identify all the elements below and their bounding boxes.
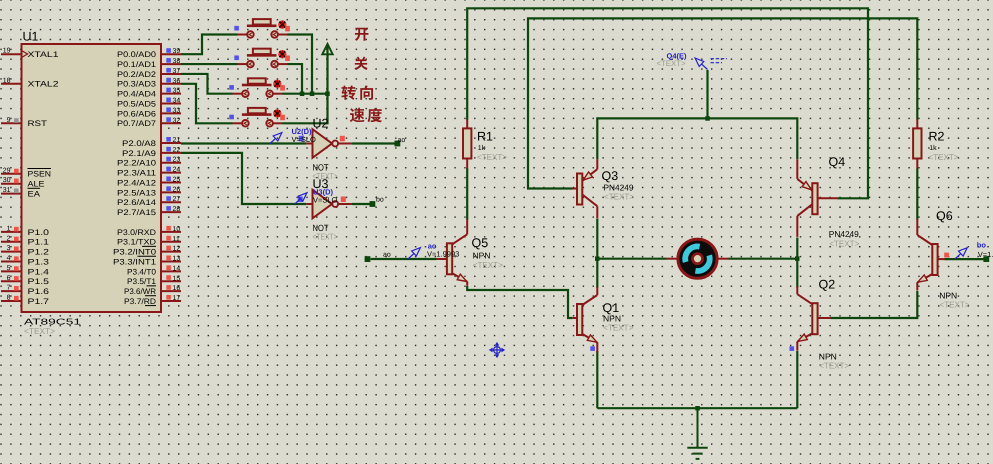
- wire Q3 base loop to R2 top: [528, 18, 917, 188]
- pin 28 P2.7/A15: [117, 206, 181, 217]
- label R1: [477, 130, 493, 144]
- svg-text:P3.2/INT0: P3.2/INT0: [113, 248, 157, 257]
- wire P2.0 to U2 input: [181, 142, 306, 144]
- pin 3 P1.2: [1, 245, 50, 256]
- label ao: [383, 252, 391, 259]
- transistor Q1: [577, 287, 597, 353]
- svg-text:R2: R2: [929, 130, 945, 144]
- indicator square Q1 emitter: [590, 346, 595, 351]
- motor lead right: [717, 258, 729, 260]
- power terminal VCC: [322, 44, 332, 54]
- junction: [325, 92, 330, 97]
- svg-text:Q4: Q4: [829, 155, 846, 169]
- svg-text:bo: bo: [376, 196, 384, 204]
- svg-text:15: 15: [173, 275, 181, 282]
- pin 36 P0.3/AD3: [117, 78, 181, 89]
- svg-text:1: 1: [7, 225, 11, 232]
- svg-text:1k: 1k: [478, 144, 486, 152]
- svg-text:Q2: Q2: [819, 278, 836, 292]
- label Q2 TEXT: [819, 361, 849, 371]
- svg-text:37: 37: [173, 68, 181, 75]
- voltage probe ao at Q5 base: [408, 248, 420, 259]
- svg-text:bo: bo: [977, 240, 987, 249]
- svg-text:35: 35: [173, 88, 181, 95]
- motor hub: [693, 254, 703, 264]
- svg-text:Q6: Q6: [936, 209, 953, 223]
- transistor Q2: [797, 286, 817, 351]
- svg-text:<TEXT>: <TEXT>: [477, 152, 507, 162]
- pin 25 P2.4/A12: [117, 176, 181, 187]
- terminal bo: [370, 201, 376, 207]
- svg-text:P3.1/TXD: P3.1/TXD: [117, 238, 156, 247]
- junction: [695, 406, 700, 411]
- motor body: [678, 239, 717, 278]
- svg-text:NPN: NPN: [473, 251, 491, 261]
- label &lt;TEXT&gt;: [313, 171, 338, 181]
- label Q1 NPN: [603, 314, 621, 324]
- terminal bo: [983, 256, 989, 262]
- svg-text:6: 6: [7, 275, 11, 282]
- svg-text:31: 31: [3, 187, 11, 194]
- svg-text:P0.2/AD2: P0.2/AD2: [117, 70, 157, 79]
- svg-text:<TEXT>: <TEXT>: [603, 323, 633, 333]
- pin 9 RST: [1, 117, 47, 128]
- pin 14 P3.4/T0: [127, 265, 181, 276]
- label Q3 Q3: [602, 169, 619, 183]
- svg-text:<TEXT>: <TEXT>: [940, 299, 970, 309]
- label R2 value 1k: [929, 144, 937, 152]
- svg-text:30: 30: [3, 177, 11, 184]
- svg-text:P0.5/AD5: P0.5/AD5: [117, 99, 157, 108]
- svg-text:PSEN: PSEN: [28, 170, 52, 179]
- svg-text:14: 14: [173, 265, 181, 272]
- svg-text:R1: R1: [477, 130, 493, 144]
- label R1 &lt;TEXT&gt;: [477, 152, 507, 162]
- wire bridge emitter rail: [597, 118, 797, 159]
- indicator square Q2 emitter: [790, 346, 795, 351]
- svg-text:P1.1: P1.1: [28, 238, 50, 247]
- svg-text:P1.0: P1.0: [28, 228, 50, 237]
- label Q3 PN4249: [604, 183, 634, 193]
- svg-text:P3.4/T0: P3.4/T0: [127, 267, 157, 276]
- svg-text:V=1.9993: V=1.9993: [427, 249, 459, 258]
- motor rotor arcs: [685, 246, 710, 271]
- svg-text:V=SLO: V=SLO: [292, 135, 317, 144]
- chinese label 度: [368, 108, 382, 122]
- svg-text:<TEXT>: <TEXT>: [604, 192, 634, 202]
- svg-text:P1.4: P1.4: [28, 267, 50, 276]
- terminal ao: [395, 141, 401, 147]
- indicator square U3 output: [341, 197, 346, 203]
- terminal ao: [365, 256, 371, 262]
- svg-text:11: 11: [173, 236, 180, 243]
- svg-text:P0.6/AD6: P0.6/AD6: [117, 109, 157, 118]
- microcontroller U1 body: [22, 44, 162, 312]
- svg-text:32: 32: [173, 117, 181, 124]
- wire R2 bottom to Q6 collector: [916, 168, 918, 219]
- transistor Q4: [797, 159, 817, 237]
- pin 23 P2.2/A10: [117, 157, 181, 168]
- wire SW1 to rail: [287, 35, 312, 94]
- origin marker: [490, 343, 505, 358]
- transistor Q5: [447, 219, 467, 285]
- voltage probe U3(D): [295, 193, 307, 204]
- label R2: [929, 130, 945, 144]
- svg-text:Q5: Q5: [472, 236, 489, 250]
- wire Q1 emitter to ground rail: [596, 351, 598, 408]
- label ao: [398, 137, 406, 144]
- svg-text:17: 17: [173, 295, 181, 302]
- svg-text:P2.1/A9: P2.1/A9: [122, 149, 157, 158]
- svg-text:U2: U2: [313, 117, 329, 131]
- svg-text:P3.5/T1: P3.5/T1: [127, 277, 157, 286]
- svg-text:<TEXT>: <TEXT>: [819, 361, 849, 371]
- label Q5 TEXT: [473, 260, 503, 270]
- pin 24 P2.3/A11: [117, 167, 181, 178]
- label V=1.9993: [427, 249, 459, 258]
- wire ao terminal to Q5 base: [371, 258, 437, 260]
- svg-text:P1.2: P1.2: [28, 248, 50, 257]
- label V=1: [978, 250, 993, 259]
- resistor R2: [913, 119, 921, 168]
- label U3: [313, 177, 329, 191]
- svg-text:P2.4/A12: P2.4/A12: [117, 178, 157, 187]
- svg-text:2: 2: [7, 235, 11, 242]
- push button SW4: [229, 108, 285, 127]
- XTAL1 clock mark: [22, 51, 28, 58]
- label Q4E &lt;TEXT&gt;: [657, 59, 686, 68]
- svg-text:RST: RST: [28, 119, 48, 128]
- junction: [795, 256, 800, 261]
- svg-text:P0.0/AD0: P0.0/AD0: [117, 50, 157, 59]
- Q1 base stub: [572, 317, 577, 319]
- label probe ao: [428, 241, 437, 250]
- wire Q6 base to bo terminal: [945, 258, 984, 260]
- pin 37 P0.2/AD2: [117, 68, 181, 79]
- label U2(D): [292, 127, 313, 136]
- svg-text:P3.3/INT1: P3.3/INT1: [113, 257, 157, 266]
- indicator square Q6 base: [944, 253, 949, 258]
- Q6 base stub: [938, 258, 945, 260]
- svg-text:<TEXT>: <TEXT>: [473, 260, 503, 270]
- pin 16 P3.6/WR: [124, 285, 181, 296]
- pin 10 P3.0/RXD: [117, 226, 181, 237]
- pin 5 P1.4: [1, 265, 50, 276]
- junction: [705, 116, 710, 121]
- pin 2 P1.1: [1, 235, 50, 246]
- indicator square U3 input: [298, 197, 303, 203]
- Q3 base stub: [572, 188, 577, 190]
- svg-text:P2.0/A8: P2.0/A8: [122, 139, 157, 148]
- svg-text:<TEXT>: <TEXT>: [313, 232, 338, 242]
- svg-text:<TEXT>: <TEXT>: [24, 326, 55, 336]
- svg-text:29: 29: [3, 167, 11, 174]
- label Q6 TEXT: [940, 299, 970, 309]
- wire ground rail to Q2 emitter: [796, 351, 798, 408]
- chinese label 关: [354, 57, 367, 70]
- svg-text:25: 25: [173, 176, 181, 183]
- ground rail: [597, 407, 797, 409]
- label R1 value 1k: [478, 144, 486, 152]
- svg-text:9: 9: [7, 117, 11, 124]
- Q4 base stub: [818, 197, 838, 199]
- svg-text:3: 3: [7, 245, 11, 252]
- svg-text:V=1.99: V=1.99: [978, 250, 993, 259]
- pin 29 PSEN: [1, 167, 51, 178]
- svg-text:XTAL1: XTAL1: [28, 50, 60, 59]
- svg-text:<TEXT>: <TEXT>: [829, 238, 859, 248]
- svg-text:<TEXT>: <TEXT>: [657, 59, 686, 68]
- svg-text:21: 21: [173, 137, 181, 144]
- resistor R1: [463, 119, 471, 168]
- pin 31 EA: [1, 187, 41, 198]
- pin 39 P0.0/AD0: [117, 48, 181, 59]
- label V=SLO U3: [313, 195, 338, 204]
- svg-text:18: 18: [3, 77, 11, 84]
- svg-text:5: 5: [7, 265, 11, 272]
- svg-text:P3.7/RD: P3.7/RD: [124, 297, 156, 306]
- label Q5 Q5: [472, 236, 489, 250]
- push button SW1: [234, 19, 290, 38]
- wire Q3 collector to motor node: [596, 219, 598, 288]
- wire U3 output to terminal bo: [352, 203, 370, 205]
- junction: [595, 256, 600, 261]
- svg-text:P3.6/WR: P3.6/WR: [124, 287, 156, 296]
- pin 22 P2.1/A9: [122, 147, 181, 158]
- svg-text:U1: U1: [23, 30, 39, 44]
- pin 21 P2.0/A8: [122, 137, 181, 148]
- svg-text:33: 33: [173, 107, 181, 114]
- pin 30 ALE: [1, 177, 45, 188]
- wire P2.1 to U3 input: [181, 153, 306, 204]
- svg-text:4: 4: [7, 255, 11, 262]
- svg-text:19: 19: [3, 48, 11, 55]
- pin 7 P1.6: [1, 285, 50, 296]
- svg-text:26: 26: [173, 186, 181, 193]
- svg-text:36: 36: [173, 78, 181, 85]
- probe Q4E value dashes: [711, 59, 728, 63]
- svg-text:P0.7/AD7: P0.7/AD7: [117, 119, 157, 128]
- svg-text:8: 8: [7, 294, 11, 301]
- voltage probe U2(D): [270, 133, 282, 144]
- label AT89C51: [24, 317, 81, 327]
- pin 33 P0.6/AD6: [117, 107, 181, 118]
- label U2: [313, 117, 329, 131]
- wire SW3 to rail: [282, 93, 327, 95]
- label U1: [23, 30, 39, 44]
- junction: [300, 92, 305, 97]
- svg-text:ao: ao: [383, 252, 391, 259]
- svg-text:P2.6/A14: P2.6/A14: [117, 198, 157, 207]
- label Q4 TEXT: [829, 238, 859, 248]
- voltage probe bo at Q6 base: [955, 248, 967, 259]
- label NOT: [313, 163, 329, 173]
- NOT gate U3: [306, 190, 352, 219]
- label Q4 Q4: [829, 155, 846, 169]
- wire probe tap Q4(E): [706, 70, 708, 118]
- pin 8 P1.7: [1, 294, 50, 305]
- label Q5 NPN: [473, 251, 491, 261]
- label R2 &lt;TEXT&gt;: [929, 152, 959, 162]
- svg-text:P1.6: P1.6: [28, 287, 50, 296]
- pin 26 P2.5/A13: [117, 186, 181, 197]
- pin 32 P0.7/AD7: [117, 117, 181, 128]
- transistor Q3: [577, 159, 597, 218]
- pin 11 P3.1/TXD: [117, 236, 181, 247]
- chinese label 转: [341, 85, 355, 99]
- svg-text:P0.3/AD3: P0.3/AD3: [117, 80, 157, 89]
- wire R1 top loop to Q4 base: [467, 8, 868, 198]
- pin 1 P1.0: [1, 225, 50, 236]
- label Q6 NPN: [939, 290, 957, 300]
- Q2 base stub: [818, 317, 831, 319]
- label probe bo: [977, 240, 987, 249]
- svg-text:1k: 1k: [929, 144, 937, 152]
- Q5 base stub: [437, 258, 447, 260]
- svg-text:P2.3/A11: P2.3/A11: [117, 169, 157, 178]
- svg-text:EA: EA: [28, 190, 41, 199]
- label V=SLO U2: [292, 135, 317, 144]
- chinese label 开: [355, 28, 369, 41]
- pin 13 P3.3/INT1: [113, 256, 181, 267]
- label Q1 Q1: [603, 301, 620, 315]
- chinese label 速: [350, 108, 365, 122]
- label Q6 Q6: [936, 209, 953, 223]
- pin 27 P2.6/A14: [117, 196, 181, 207]
- pin 35 P0.4/AD4: [117, 88, 181, 99]
- pin 17 P3.7/RD: [124, 295, 181, 306]
- pin 34 P0.5/AD5: [117, 98, 181, 109]
- label Q3 TEXT: [604, 192, 634, 202]
- svg-text:27: 27: [173, 196, 181, 203]
- pin 19 XTAL1: [1, 48, 59, 59]
- svg-text:P2.2/A10: P2.2/A10: [117, 159, 157, 168]
- svg-text:P2.5/A13: P2.5/A13: [117, 188, 157, 197]
- svg-text:<TEXT>: <TEXT>: [929, 152, 959, 162]
- pin 12 P3.2/INT0: [113, 246, 181, 257]
- pin 4 P1.3: [1, 255, 50, 266]
- NOT gate U2: [306, 129, 352, 158]
- indicator square U2 input: [299, 136, 304, 142]
- push button SW2: [234, 49, 290, 68]
- svg-text:7: 7: [7, 285, 11, 292]
- svg-text:V=SLO: V=SLO: [313, 195, 338, 204]
- chinese label 向: [360, 85, 373, 99]
- wire motor to motor node right: [729, 258, 798, 260]
- wire R1 bottom to Q5 collector: [466, 168, 468, 219]
- label U1 &lt;TEXT&gt;: [24, 326, 55, 336]
- push button SW3: [229, 78, 285, 97]
- label U3(D): [313, 187, 334, 196]
- label probe Q4(E): [667, 51, 688, 60]
- wire Q4 collector to motor node: [796, 238, 798, 288]
- label &lt;TEXT&gt;: [313, 232, 338, 242]
- transistor Q6: [917, 219, 937, 291]
- wire SW2 to rail: [287, 64, 302, 94]
- label NOT: [313, 223, 329, 233]
- svg-text:39: 39: [173, 48, 181, 55]
- svg-text:P2.7/A15: P2.7/A15: [117, 208, 157, 217]
- svg-text:AT89C51: AT89C51: [24, 317, 81, 327]
- svg-text:Q3: Q3: [602, 169, 619, 183]
- svg-text:13: 13: [173, 256, 181, 263]
- label Q4 PN4249: [829, 229, 859, 239]
- voltage probe Q4(E): [695, 58, 707, 69]
- svg-text:16: 16: [173, 285, 181, 292]
- svg-text:P1.3: P1.3: [28, 257, 50, 266]
- ground: [687, 408, 707, 459]
- svg-text:P1.7: P1.7: [28, 297, 50, 306]
- wire P0.0 to SW1: [181, 35, 238, 55]
- wire motor node left to motor: [597, 258, 666, 260]
- svg-text:34: 34: [173, 98, 181, 105]
- svg-text:38: 38: [173, 58, 181, 65]
- wire P0.3 to SW4: [181, 84, 233, 123]
- wire U2 output to terminal ao: [352, 142, 395, 144]
- svg-text:P0.4/AD4: P0.4/AD4: [117, 90, 157, 99]
- pin 38 P0.1/AD1: [117, 58, 181, 69]
- pin 6 P1.5: [1, 275, 50, 286]
- label Q2 NPN: [819, 351, 837, 361]
- indicator square U2 output: [340, 136, 345, 142]
- svg-text:ao: ao: [398, 137, 406, 144]
- svg-text:XTAL2: XTAL2: [28, 80, 60, 89]
- label Q2 Q2: [819, 278, 836, 292]
- wire P0.2 to SW3: [181, 74, 233, 94]
- motor lead left: [667, 258, 679, 260]
- svg-text:P3.0/RXD: P3.0/RXD: [117, 228, 156, 237]
- svg-text:P1.5: P1.5: [28, 277, 50, 286]
- svg-text:12: 12: [173, 246, 181, 253]
- wire Q5 emitter to Q1 base: [467, 286, 572, 318]
- pin 18 XTAL2: [1, 77, 59, 88]
- svg-text:22: 22: [173, 147, 181, 154]
- junction: [310, 92, 315, 97]
- svg-text:23: 23: [173, 157, 181, 164]
- wire P0.1 to SW2: [181, 63, 238, 65]
- label Q1 TEXT: [603, 323, 633, 333]
- label bo: [376, 196, 384, 204]
- svg-text:ALE: ALE: [28, 180, 45, 189]
- wire rail to SW4: [282, 46, 327, 123]
- wire Q2 base to Q6 emitter: [831, 291, 918, 318]
- svg-text:24: 24: [173, 167, 181, 174]
- svg-text:P0.1/AD1: P0.1/AD1: [117, 60, 157, 69]
- svg-text:10: 10: [173, 226, 181, 233]
- svg-text:28: 28: [173, 206, 181, 213]
- pin 15 P3.5/T1: [127, 275, 181, 286]
